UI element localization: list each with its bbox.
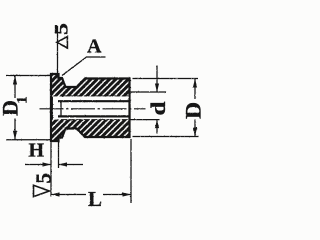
H left arrow (points right) bbox=[43, 162, 52, 166]
label A underline bbox=[87, 56, 106, 58]
H right extension line (flange right face extended) bbox=[58, 141, 60, 168]
svg-text:5: 5 bbox=[51, 23, 72, 35]
svg-text:5: 5 bbox=[32, 173, 56, 184]
H left extension line (flange left face extended) bbox=[50, 141, 52, 197]
centerline (axis), dash-dot bbox=[40, 108, 146, 110]
surface mark leader line (top) bbox=[57, 26, 59, 74]
D1 bottom extension line bbox=[6, 139, 50, 141]
L left arrow bbox=[51, 192, 60, 196]
label A leader bbox=[62, 57, 87, 76]
D1 bottom arrow bbox=[13, 131, 17, 140]
bore bottom edge bbox=[58, 115, 129, 117]
thread end vertical at bore left bbox=[60, 102, 62, 117]
flange left face line across bore bbox=[51, 97, 53, 120]
D1 top extension line bbox=[6, 75, 52, 77]
D1 dimension line upper segment bbox=[14, 76, 16, 99]
svg-text:H: H bbox=[29, 140, 45, 162]
D dimension line lower segment bbox=[194, 120, 196, 137]
d dimension line top tail bbox=[156, 66, 158, 93]
L right extension line (body right face extended) bbox=[130, 139, 132, 203]
body bottom edge extension to D dim bbox=[133, 136, 199, 138]
d bottom extension line bbox=[130, 119, 160, 121]
svg-text:D: D bbox=[181, 102, 205, 119]
D top arrow bbox=[193, 79, 197, 88]
bore (through hole band) bbox=[53, 96, 129, 119]
thread major line top bbox=[61, 95, 129, 97]
D1 dimension line lower segment bbox=[14, 119, 16, 140]
H dimension line right tail bbox=[59, 164, 84, 166]
svg-text:A: A bbox=[87, 36, 102, 58]
svg-text:d: d bbox=[147, 101, 171, 115]
D1 top arrow bbox=[13, 76, 17, 85]
d bottom arrow (points up) bbox=[155, 120, 159, 129]
L dimension line right segment bbox=[103, 194, 131, 196]
bore top edge bbox=[58, 100, 129, 102]
part body+flange outer profile (section, hatched) bbox=[51, 74, 130, 141]
body top edge extension to D dim bbox=[133, 78, 199, 80]
d top arrow (points down) bbox=[155, 84, 159, 93]
D bottom arrow bbox=[193, 128, 197, 137]
d top extension line bbox=[131, 91, 167, 93]
thread major line bottom bbox=[61, 119, 129, 121]
svg-text:L: L bbox=[88, 187, 102, 211]
D dimension line upper segment bbox=[194, 79, 196, 100]
d dimension line bottom tail bbox=[156, 120, 158, 134]
surface mark triangle (rotated delta) bbox=[57, 37, 68, 48]
L dimension line left segment bbox=[51, 194, 86, 196]
H dimension line left tail bbox=[25, 164, 51, 166]
H right arrow (points left) bbox=[59, 162, 68, 166]
bottom surface mark triangle (rotated nabla) bbox=[34, 185, 50, 196]
L right arrow bbox=[123, 192, 132, 196]
part right face line across bore bbox=[128, 98, 130, 120]
